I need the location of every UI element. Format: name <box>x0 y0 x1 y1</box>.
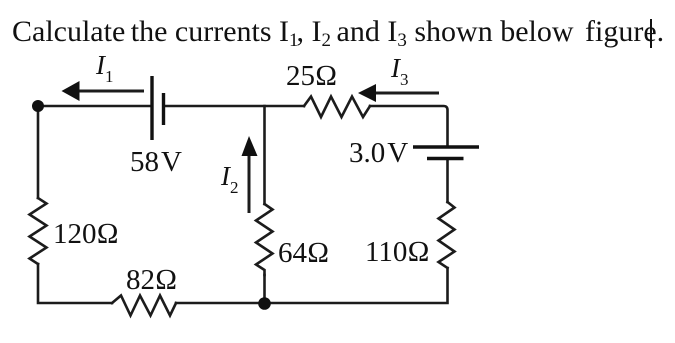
svg-text:3.0V: 3.0V <box>349 137 408 169</box>
svg-text:I2: I2 <box>220 161 239 197</box>
svg-text:110Ω: 110Ω <box>365 236 430 268</box>
svg-text:25Ω: 25Ω <box>286 60 337 92</box>
svg-text:58V: 58V <box>130 146 182 178</box>
svg-text:82Ω: 82Ω <box>126 264 177 296</box>
svg-text:I3: I3 <box>390 53 409 89</box>
svg-text:Calculate the currents I1, I2: Calculate the currents I1, I2 and I3 sho… <box>12 15 664 51</box>
svg-text:120Ω: 120Ω <box>53 218 119 250</box>
svg-text:I1: I1 <box>95 50 114 86</box>
svg-text:64Ω: 64Ω <box>278 237 329 269</box>
